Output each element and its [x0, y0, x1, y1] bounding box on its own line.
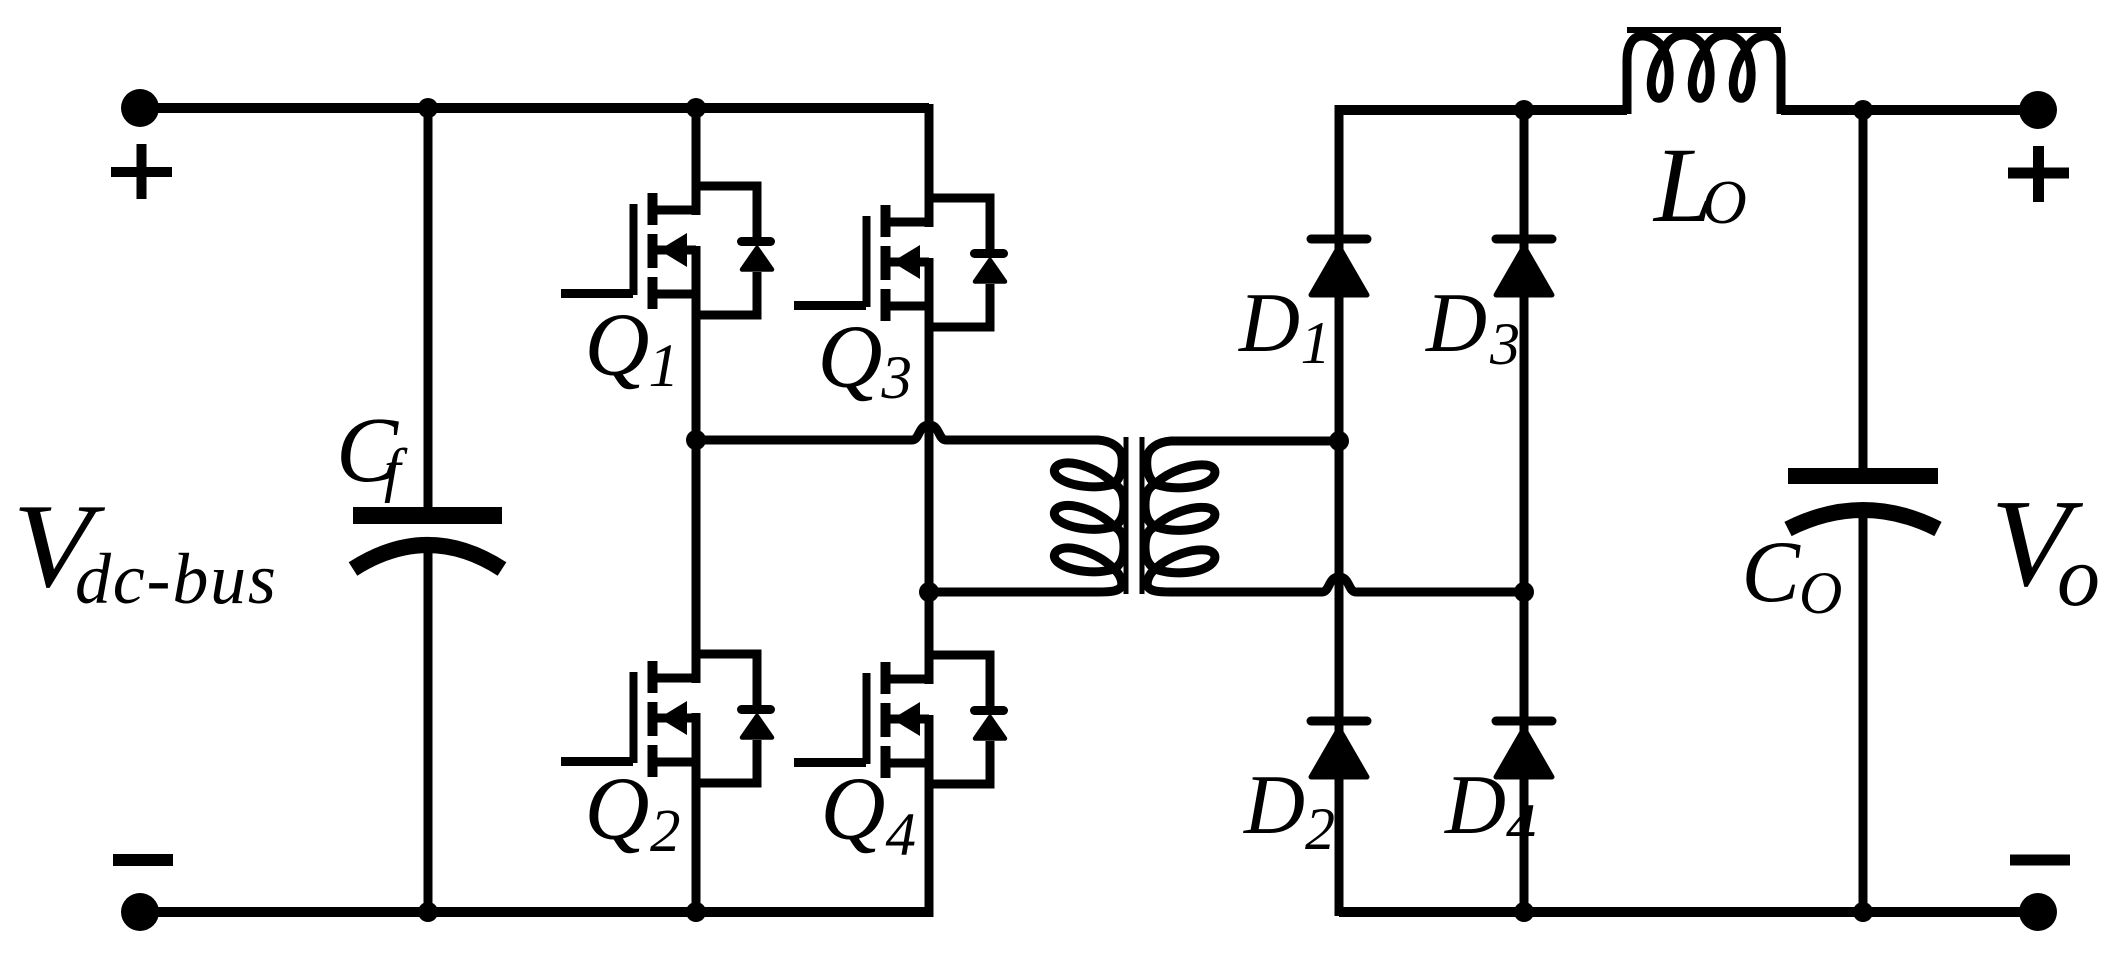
svg-text:Q: Q [585, 296, 650, 395]
svg-text:2: 2 [1305, 796, 1335, 862]
svg-text:D: D [1425, 277, 1487, 370]
svg-text:O: O [1702, 169, 1747, 237]
svg-text:Q: Q [818, 308, 883, 407]
svg-text:3: 3 [881, 345, 913, 412]
svg-text:4: 4 [886, 802, 917, 869]
svg-text:2: 2 [650, 798, 681, 865]
svg-text:dc-bus: dc-bus [75, 539, 278, 619]
svg-text:4: 4 [1506, 792, 1536, 858]
svg-text:1: 1 [649, 333, 680, 400]
svg-text:f: f [384, 437, 408, 503]
svg-text:Q: Q [585, 760, 650, 859]
svg-text:C: C [1742, 523, 1802, 620]
svg-text:O: O [1799, 560, 1842, 626]
svg-text:1: 1 [1301, 310, 1331, 376]
svg-text:3: 3 [1489, 311, 1520, 377]
svg-text:D: D [1243, 759, 1305, 852]
svg-text:D: D [1238, 277, 1300, 370]
svg-text:o: o [2057, 528, 2100, 624]
svg-text:D: D [1444, 759, 1506, 852]
svg-text:Q: Q [821, 760, 886, 859]
